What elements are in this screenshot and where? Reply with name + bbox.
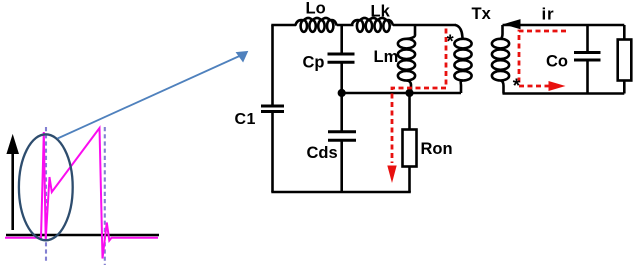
blue pointer arrow [58, 52, 248, 139]
secondary current arrowhead [549, 81, 566, 91]
svg-text:Lk: Lk [371, 3, 391, 21]
node dot B [405, 89, 413, 97]
secondary bottom wire [503, 92, 625, 95]
resistor Ron body [403, 130, 417, 167]
dashed vertical marker 2 [104, 127, 106, 265]
highlight ellipse [19, 134, 73, 240]
inductor Lk [352, 18, 393, 32]
capacitor Cds [340, 93, 343, 132]
primary current path [392, 29, 446, 164]
svg-text:C1: C1 [235, 111, 256, 128]
wire Lo to Lk [337, 24, 354, 27]
svg-text:Lm: Lm [374, 48, 399, 66]
svg-text:Ron: Ron [421, 140, 453, 158]
inductor Lm [398, 25, 415, 93]
node dot A [338, 89, 346, 97]
y-axis arrow [7, 136, 18, 231]
wire Lk to transformer [393, 24, 456, 27]
secondary top wire [503, 24, 625, 27]
capacitor Cp [340, 25, 343, 54]
transformer primary winding [454, 25, 471, 93]
bottom rail [271, 191, 411, 194]
wire top left [271, 24, 296, 27]
waveform trace [5, 128, 158, 259]
load resistor [623, 25, 626, 40]
capacitor Co [586, 25, 589, 53]
svg-text:Lo: Lo [306, 0, 326, 17]
dashed vertical marker 1 [45, 127, 47, 262]
svg-text:*: * [513, 76, 521, 97]
x-axis [6, 234, 159, 237]
svg-text:*: * [447, 31, 454, 51]
transformer secondary winding [492, 25, 509, 94]
primary current arrowhead [387, 166, 396, 184]
svg-text:Cds: Cds [307, 144, 338, 162]
secondary current path [519, 31, 566, 86]
resistor Ron branch wire [408, 93, 411, 130]
svg-text:Cp: Cp [303, 54, 325, 72]
capacitor C1 [271, 25, 274, 106]
svg-text:Tx: Tx [472, 5, 492, 23]
inductor Lo [295, 18, 336, 32]
svg-text:Co: Co [546, 53, 568, 71]
mid wire [342, 92, 461, 95]
svg-text:ir: ir [542, 5, 555, 24]
current arrow ir [505, 20, 520, 29]
